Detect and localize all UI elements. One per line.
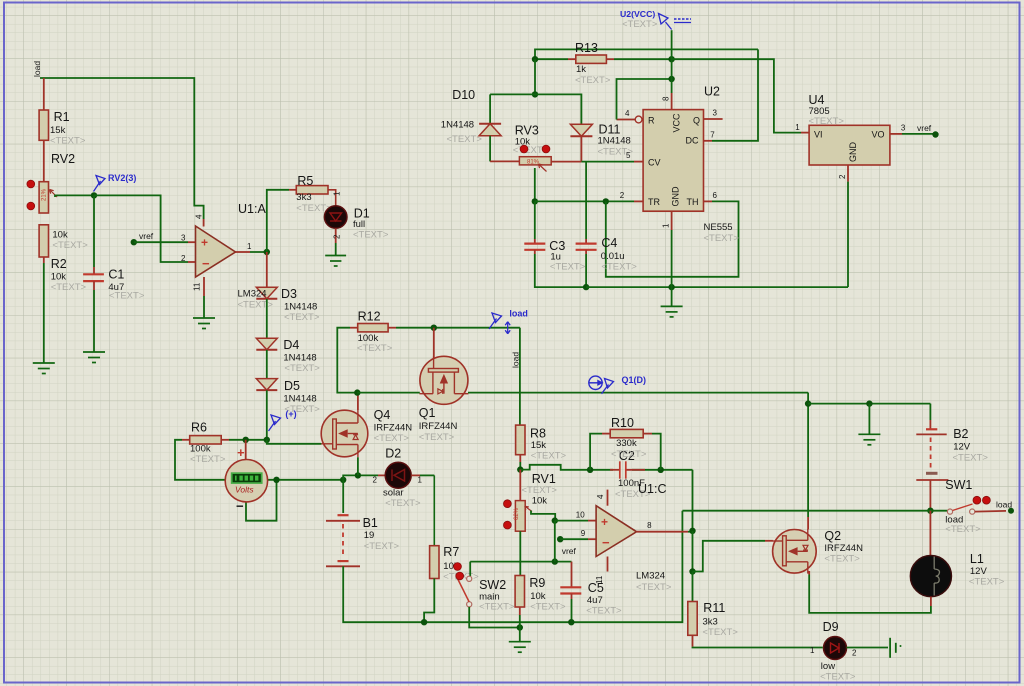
svg-text:R: R <box>648 116 655 126</box>
svg-text:TR: TR <box>648 197 660 207</box>
node load output terminal <box>1008 508 1014 514</box>
svg-text:<TEXT>: <TEXT> <box>550 262 586 273</box>
svg-text:RV2(3): RV2(3) <box>108 173 136 183</box>
svg-text:D2: D2 <box>385 447 401 461</box>
svg-text:1N4148: 1N4148 <box>284 302 317 313</box>
svg-text:DC: DC <box>686 136 699 146</box>
svg-text:VCC: VCC <box>672 113 682 133</box>
node Q4 drain junction <box>354 389 360 395</box>
svg-text:<TEXT>: <TEXT> <box>953 453 989 464</box>
svg-text:D4: D4 <box>283 338 299 352</box>
resistor R2 <box>39 225 48 257</box>
svg-text:D10: D10 <box>452 88 475 102</box>
svg-text:solar: solar <box>383 488 404 499</box>
MOSFET Q1 IRFZ44N (rotated) <box>419 356 468 404</box>
resistor R10 <box>610 429 643 437</box>
wire R8 bottom to feedback node <box>519 455 521 462</box>
node load rail B2 junction <box>927 508 933 514</box>
svg-text:<TEXT>: <TEXT> <box>419 432 455 443</box>
wire R8 top feed <box>519 328 521 425</box>
diode D5 <box>256 379 277 391</box>
svg-text:Q2: Q2 <box>824 529 841 543</box>
svg-text:2: 2 <box>333 234 342 239</box>
capacitor C2 <box>620 461 626 478</box>
node VCC pin junction <box>668 76 674 82</box>
svg-text:<TEXT>: <TEXT> <box>385 498 421 509</box>
node ground tap junction <box>866 400 872 406</box>
svg-text:1N4148: 1N4148 <box>441 120 474 131</box>
node B2 rail junction <box>805 400 811 406</box>
wire C5/vref rail <box>470 561 571 563</box>
LED D9 low <box>824 637 847 660</box>
voltmeter (Volts) <box>225 460 267 502</box>
svg-text:LM324: LM324 <box>636 571 665 582</box>
wire R9 to ground <box>519 607 521 615</box>
wire R10 branch <box>590 434 602 470</box>
wire RV3 wiper down to TR rail <box>534 168 536 201</box>
svg-text:<TEXT>: <TEXT> <box>622 19 658 30</box>
wire output down to R11 <box>692 531 694 572</box>
wire U4 GND down to ground rail <box>847 165 849 182</box>
node Q1 gate junction <box>431 325 437 331</box>
svg-text:R11: R11 <box>703 601 725 615</box>
svg-text:1N4148: 1N4148 <box>283 353 316 364</box>
resistor R5 <box>296 186 328 194</box>
capacitor C1 <box>93 195 95 267</box>
node RV2 wiper junction <box>91 192 97 198</box>
svg-text:C1: C1 <box>108 268 124 282</box>
svg-text:R2: R2 <box>51 257 67 271</box>
svg-text:SW2: SW2 <box>479 578 506 592</box>
svg-text:2: 2 <box>620 191 625 200</box>
svg-text:D9: D9 <box>823 620 839 634</box>
power terminal after D9 <box>890 638 896 658</box>
node pin10-C5 junction <box>552 558 558 564</box>
svg-text:1N4148: 1N4148 <box>598 136 631 147</box>
svg-text:8: 8 <box>647 521 652 530</box>
node R6-D5-voltmeter junction <box>264 437 270 443</box>
resistor R6 <box>190 436 222 444</box>
svg-text:D11: D11 <box>599 123 621 137</box>
svg-text:<TEXT>: <TEXT> <box>586 606 622 617</box>
wire TR rail <box>535 200 634 202</box>
wire B2 minus to load rail <box>929 480 931 511</box>
node R10 left junction <box>587 467 593 473</box>
wire U4 VO to vref <box>890 133 902 135</box>
LED D1 <box>324 206 347 229</box>
svg-text:<TEXT>: <TEXT> <box>611 449 647 460</box>
svg-text:<TEXT>: <TEXT> <box>601 262 637 273</box>
svg-text:0.01u: 0.01u <box>601 251 625 262</box>
resistor R12 <box>358 324 388 332</box>
svg-text:1: 1 <box>333 191 342 196</box>
svg-text:21%: 21% <box>42 188 48 201</box>
svg-text:<TEXT>: <TEXT> <box>530 602 566 613</box>
wire op-amp output node <box>236 251 251 253</box>
svg-text:12V: 12V <box>953 442 971 453</box>
svg-text:−: − <box>602 535 610 550</box>
svg-text:<TEXT>: <TEXT> <box>809 116 845 127</box>
probe load (PWM rail) <box>489 313 502 329</box>
svg-text:<TEXT>: <TEXT> <box>50 136 86 147</box>
wire D9 to power terminal <box>847 647 889 649</box>
svg-text:3: 3 <box>713 109 718 118</box>
wire reset pin to VCC <box>617 119 636 121</box>
svg-text:load: load <box>509 308 528 318</box>
svg-text:NE555: NE555 <box>704 222 733 233</box>
wire pin10 to op-amp <box>555 520 588 522</box>
svg-text:4: 4 <box>625 109 630 118</box>
svg-text:1: 1 <box>247 242 252 251</box>
wire SW1 to load terminal <box>975 510 1006 513</box>
wire Q4 drain to R12 rail <box>357 393 359 410</box>
svg-text:+: + <box>237 445 245 460</box>
svg-text:−: − <box>202 256 210 271</box>
diode D11 <box>570 124 592 136</box>
wire to Q2 gate <box>693 541 766 572</box>
wire D10/D11 top rail <box>534 59 536 94</box>
svg-text:<TEXT>: <TEXT> <box>374 433 410 444</box>
switch SW2 main <box>469 562 471 577</box>
diode D10 <box>479 123 501 125</box>
capacitor C5 <box>571 562 573 588</box>
ground under D1 <box>325 256 346 267</box>
node pin10 junction <box>552 517 558 523</box>
wire load net rail <box>682 510 947 512</box>
MOSFET Q4 IRFZ44N <box>321 410 368 458</box>
svg-text:B1: B1 <box>363 516 378 530</box>
svg-text:1N4148: 1N4148 <box>283 394 316 405</box>
node vref output <box>932 131 938 137</box>
wire DC pin 7 loop <box>704 140 713 142</box>
svg-text:B2: B2 <box>953 427 968 441</box>
wire R12 left loop to Q4 drain rail <box>350 327 358 329</box>
wire Q1 source-drain rail <box>357 392 420 394</box>
diode D3 <box>266 252 268 287</box>
svg-text:Q1: Q1 <box>419 406 436 420</box>
node vref pin9 <box>557 536 563 542</box>
svg-text:U2(VCC): U2(VCC) <box>620 9 655 19</box>
wire Q pin 3 <box>704 118 723 120</box>
svg-text:L1: L1 <box>970 552 984 566</box>
svg-text:Q: Q <box>693 116 700 126</box>
node R9 bottom junction <box>517 624 523 630</box>
svg-text:<TEXT>: <TEXT> <box>190 454 226 465</box>
svg-text:15k: 15k <box>50 125 66 136</box>
wire D11 to CV rail <box>580 136 582 161</box>
MOSFET Q2 IRFZ44N <box>773 529 817 574</box>
node feedback left junction <box>517 466 523 472</box>
svg-text:81%: 81% <box>527 160 540 166</box>
svg-text:+: + <box>201 236 208 250</box>
wire main rail to battery B1 and Q4 source <box>340 477 346 483</box>
wire op-amp pin11 to ground <box>203 277 205 296</box>
wire load rail to op-amp pin4 <box>40 78 204 219</box>
op-amp U1:C <box>596 506 636 557</box>
wire 555 GND pin <box>671 211 673 230</box>
svg-text:load: load <box>996 500 1012 510</box>
svg-text:D5: D5 <box>284 379 300 393</box>
svg-text:R8: R8 <box>530 427 546 441</box>
svg-text:12V: 12V <box>970 566 988 577</box>
wire B1 negative to bottom rail <box>343 511 682 623</box>
node R7 bottom rail junction <box>421 619 427 625</box>
capacitor C3 <box>534 201 536 239</box>
svg-text:<TEXT>: <TEXT> <box>969 577 1005 588</box>
svg-text:R6: R6 <box>191 421 207 435</box>
node Q2 gate branch <box>689 568 695 574</box>
wire D3 to D4 <box>266 299 268 338</box>
node 555 GND junction <box>668 284 674 290</box>
diode D4 <box>256 338 277 350</box>
svg-text:R9: R9 <box>529 576 545 590</box>
svg-text:C5: C5 <box>588 581 604 595</box>
wire R5 to D1 <box>328 190 336 206</box>
svg-text:15k: 15k <box>531 440 547 451</box>
svg-text:7: 7 <box>710 131 715 140</box>
svg-text:vref: vref <box>139 231 154 241</box>
resistor R1 <box>43 78 45 110</box>
wire R2 to ground <box>43 257 45 263</box>
svg-text:<TEXT>: <TEXT> <box>522 485 558 496</box>
svg-text:<TEXT>: <TEXT> <box>575 75 611 86</box>
svg-text:10k: 10k <box>52 230 68 241</box>
svg-text:6: 6 <box>713 191 718 200</box>
svg-text:4u7: 4u7 <box>587 595 603 606</box>
svg-text:D3: D3 <box>281 287 297 301</box>
svg-text:TH: TH <box>687 197 699 207</box>
svg-text:+: + <box>601 515 608 529</box>
node C5 bottom junction <box>568 619 574 625</box>
wire ground tap <box>868 404 870 435</box>
svg-text:1: 1 <box>810 646 815 655</box>
ground under R9 <box>509 642 531 653</box>
resistor R8 <box>516 425 525 455</box>
resistor R11 <box>692 572 694 602</box>
wire L1 bottom to Q2 source <box>930 597 932 606</box>
svg-text:<TEXT>: <TEXT> <box>447 134 483 145</box>
svg-text:<TEXT>: <TEXT> <box>357 343 393 354</box>
svg-text:5: 5 <box>626 151 631 160</box>
svg-text:<TEXT>: <TEXT> <box>353 230 389 241</box>
wire Q4 source to rail <box>357 457 359 475</box>
svg-text:Volts: Volts <box>235 485 254 495</box>
probe (+) <box>269 415 281 431</box>
svg-text:IRFZ44N: IRFZ44N <box>824 543 863 554</box>
ground under C1 <box>83 352 105 363</box>
svg-text:U2: U2 <box>704 85 720 99</box>
voltmeter terminal wires <box>245 440 247 460</box>
svg-text:RV1: RV1 <box>532 472 556 486</box>
svg-text:VI: VI <box>814 130 823 140</box>
wire rail down to B2 <box>929 404 931 420</box>
svg-text:(+): (+) <box>285 409 296 419</box>
svg-text:IRFZ44N: IRFZ44N <box>374 423 413 434</box>
lamp L1 <box>929 511 931 556</box>
battery B2 <box>926 428 937 430</box>
svg-text:9: 9 <box>581 529 586 538</box>
node TR-TH junction <box>603 198 609 204</box>
svg-text:100k: 100k <box>190 444 211 455</box>
resistor R13 <box>576 55 607 63</box>
wire D4 to D5 <box>266 350 268 379</box>
svg-text:vref: vref <box>917 123 932 133</box>
svg-text:2: 2 <box>373 476 378 485</box>
svg-text:R13: R13 <box>575 41 598 55</box>
wire R6 right to D5 node <box>221 439 229 441</box>
svg-text:<TEXT>: <TEXT> <box>824 554 860 565</box>
svg-text:RV3: RV3 <box>515 124 539 138</box>
svg-text:<TEXT>: <TEXT> <box>284 312 320 323</box>
node U1:A output <box>264 249 270 255</box>
wire Q2 drain up to top rail <box>807 393 809 404</box>
svg-text:<TEXT>: <TEXT> <box>945 524 981 535</box>
wire D1 to ground <box>335 228 337 243</box>
node TR-C3 junction <box>532 198 538 204</box>
svg-text:load: load <box>32 61 42 77</box>
svg-text:GND: GND <box>671 186 681 207</box>
node vref (op-amp A input) <box>131 239 137 245</box>
wire B2 plus rail <box>808 403 930 405</box>
wire feedback rail with jog <box>520 465 613 470</box>
svg-text:<TEXT>: <TEXT> <box>52 240 88 251</box>
svg-text:2: 2 <box>852 649 857 658</box>
probe U2(VCC) <box>659 14 672 30</box>
svg-text:<TEXT>: <TEXT> <box>531 451 567 462</box>
svg-text:<TEXT>: <TEXT> <box>109 291 145 302</box>
svg-text:10k: 10k <box>530 591 546 602</box>
node Q4 source junction <box>355 472 361 478</box>
wire RV2 wiper to junction <box>55 195 94 197</box>
wire 555 VCC pin 8 <box>671 93 673 110</box>
svg-text:1: 1 <box>662 223 671 228</box>
svg-text:LM324: LM324 <box>238 289 267 300</box>
node R10 right junction <box>658 467 664 473</box>
wire D2 to R7 <box>411 474 420 476</box>
ground under op-amp U1:A <box>193 318 215 329</box>
pin 4 reset bubble <box>635 116 642 123</box>
svg-text:10k: 10k <box>532 496 548 507</box>
svg-text:C4: C4 <box>601 236 617 250</box>
svg-text:U1:C: U1:C <box>638 482 666 496</box>
svg-text:U4: U4 <box>809 93 825 107</box>
svg-text:Q4: Q4 <box>374 408 391 422</box>
wire 555 ground rail <box>586 286 848 288</box>
svg-text:SW1: SW1 <box>945 478 972 492</box>
wire output up to R5 <box>267 190 289 252</box>
svg-text:1k: 1k <box>576 64 586 75</box>
wire R6 left loop to voltmeter rail <box>182 439 190 441</box>
svg-text:<TEXT>: <TEXT> <box>636 582 672 593</box>
wire Q4 gate from D5 node <box>267 440 322 444</box>
svg-text:<TEXT>: <TEXT> <box>364 541 400 552</box>
wire feedback to output <box>692 470 694 531</box>
svg-text:<TEXT>: <TEXT> <box>479 602 515 613</box>
svg-text:<TEXT>: <TEXT> <box>820 672 856 683</box>
svg-text:R5: R5 <box>297 174 313 188</box>
svg-text:<TEXT>: <TEXT> <box>238 300 274 311</box>
svg-text:1: 1 <box>418 476 423 485</box>
svg-text:2: 2 <box>838 174 847 179</box>
svg-text:10: 10 <box>576 511 585 520</box>
node D10 rail junction <box>532 91 538 97</box>
svg-text:<TEXT>: <TEXT> <box>703 627 739 638</box>
wire VCC to U4 VI <box>672 59 801 132</box>
wire R11 bottom to D9 <box>692 635 694 647</box>
node C4 ground junction <box>583 284 589 290</box>
wire VCC top rails <box>535 49 758 59</box>
svg-text:vref: vref <box>562 546 577 556</box>
svg-text:R10: R10 <box>611 416 634 430</box>
IC U4 7805 <box>809 125 890 165</box>
svg-text:full: full <box>353 219 365 230</box>
wire op-amp C output <box>637 531 689 533</box>
svg-text:1: 1 <box>795 123 800 132</box>
svg-text:R7: R7 <box>443 545 459 559</box>
probe RV2(3) <box>94 176 106 192</box>
svg-text:11: 11 <box>193 282 202 291</box>
svg-text:3k3: 3k3 <box>703 617 718 628</box>
svg-text:load: load <box>511 352 521 368</box>
svg-text:<TEXT>: <TEXT> <box>284 363 320 374</box>
svg-text:8: 8 <box>662 96 671 101</box>
node 555 VCC junction top <box>668 56 674 62</box>
svg-text:3: 3 <box>181 234 186 243</box>
ground symbol top right <box>858 434 880 445</box>
wire vref to pin3 <box>134 241 188 243</box>
wire R13 right to VCC node <box>606 58 614 60</box>
IC U2 NE555 <box>643 110 703 212</box>
battery B1 <box>342 480 344 513</box>
svg-text:<TEXT>: <TEXT> <box>704 233 740 244</box>
resistor R7 <box>430 546 439 579</box>
node R13 left junction <box>532 56 538 62</box>
wire pin9 <box>560 538 588 540</box>
svg-text:Q1(D): Q1(D) <box>622 375 647 385</box>
svg-text:R1: R1 <box>54 110 70 124</box>
wire D5 down to R6 node <box>266 390 268 440</box>
probe Q1(D) current probe <box>589 376 602 389</box>
svg-text:GND: GND <box>848 142 858 163</box>
wire RV3 right to CV <box>551 161 581 163</box>
svg-text:RV2: RV2 <box>51 152 75 166</box>
svg-text:IRFZ44N: IRFZ44N <box>419 421 458 432</box>
ground under R2 <box>33 363 55 374</box>
wire SW2 bottom to R9 ground <box>469 607 520 628</box>
svg-text:330k: 330k <box>616 438 637 449</box>
node U1:C output <box>689 528 695 534</box>
svg-text:4: 4 <box>596 494 605 499</box>
svg-text:62%: 62% <box>514 507 520 520</box>
svg-text:CV: CV <box>648 158 661 168</box>
ground under 555 <box>671 287 673 306</box>
wire R12 right to R8 column <box>388 327 396 329</box>
svg-text:2: 2 <box>181 254 186 263</box>
svg-text:10k: 10k <box>51 272 67 283</box>
wire D10 to RV3 <box>489 136 491 162</box>
svg-text:4: 4 <box>195 214 204 219</box>
node voltmeter minus junction <box>273 477 279 483</box>
svg-text:19: 19 <box>364 530 375 541</box>
resistor R9 <box>519 531 521 575</box>
svg-text:VO: VO <box>871 130 884 140</box>
wire TH loop <box>704 200 713 202</box>
wire R7 bottom to rail <box>424 579 434 623</box>
svg-text:low: low <box>821 661 835 672</box>
svg-text:R12: R12 <box>358 310 381 324</box>
wire wiper junction to op-amp pin2 <box>94 195 188 262</box>
wire RV1 wiper to op-amp pin10 <box>531 511 555 521</box>
